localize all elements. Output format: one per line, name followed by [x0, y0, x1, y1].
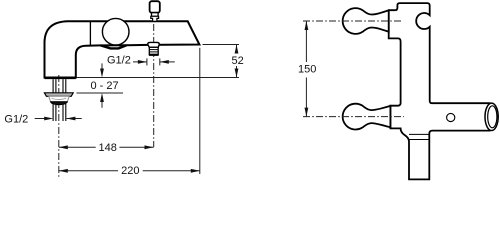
svg-text:148: 148: [99, 142, 117, 154]
svg-text:0 - 27: 0 - 27: [91, 80, 119, 92]
svg-text:G1/2: G1/2: [107, 55, 131, 67]
svg-text:G1/2: G1/2: [4, 113, 28, 125]
svg-text:52: 52: [232, 55, 244, 67]
svg-text:220: 220: [121, 165, 139, 177]
svg-text:150: 150: [298, 63, 316, 75]
